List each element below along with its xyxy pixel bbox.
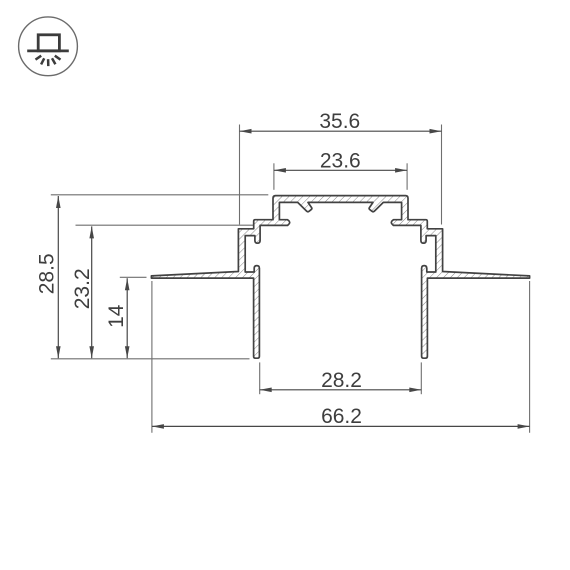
dimension 35.6 <box>240 110 442 134</box>
extension line 23.2 top <box>76 224 254 226</box>
icon light rays <box>36 56 42 60</box>
svg-text:66.2: 66.2 <box>321 405 362 428</box>
extension line bottom (28.5/23.2/14) <box>51 358 250 360</box>
extension line 23.6 left <box>273 163 275 190</box>
svg-text:35.6: 35.6 <box>319 110 360 133</box>
dimension 23.2 <box>71 226 94 358</box>
dimension 14 <box>105 278 130 358</box>
dimension 28.2 <box>260 369 422 392</box>
extension line 28.2 left <box>259 362 261 394</box>
svg-text:23.6: 23.6 <box>320 149 361 172</box>
svg-text:14: 14 <box>105 304 128 328</box>
extension line 35.6 left <box>239 125 241 225</box>
dimension 66.2 <box>152 405 530 429</box>
extension line 28.2 right <box>420 362 422 394</box>
extension line 28.5 top <box>51 194 268 196</box>
extension line 35.6 right <box>441 125 443 225</box>
icon ceiling line <box>27 50 69 53</box>
dimension 23.6 <box>274 149 407 172</box>
extension line 14 top <box>120 276 147 278</box>
recessed-mount icon circle <box>19 17 78 76</box>
icon fixture box <box>38 35 59 51</box>
profile cross-section <box>151 196 529 359</box>
dimension 28.5 <box>35 196 60 358</box>
svg-text:23.2: 23.2 <box>71 268 94 309</box>
extension line 66.2 left <box>151 281 153 433</box>
svg-text:28.2: 28.2 <box>321 369 362 392</box>
svg-text:28.5: 28.5 <box>35 253 58 294</box>
extension line 66.2 right <box>529 281 531 433</box>
extension line 23.6 right <box>406 163 408 190</box>
